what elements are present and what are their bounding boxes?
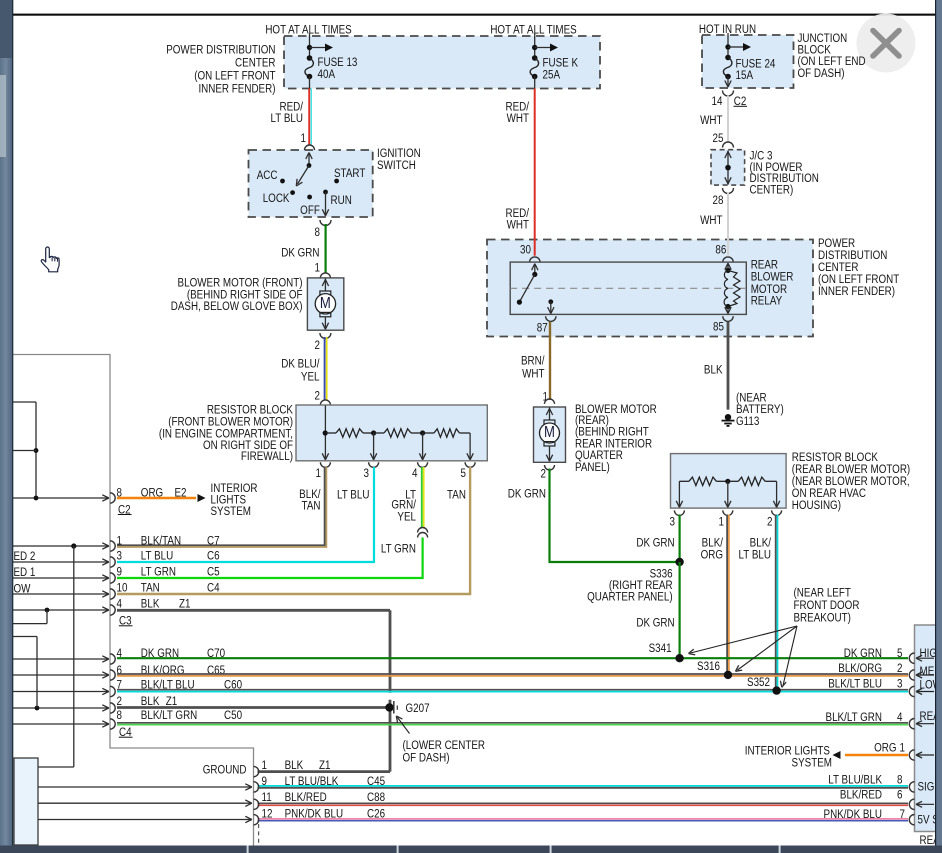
- connector bump GROUND pin 9: [254, 782, 259, 792]
- fuse FK bottom terminal: [532, 74, 538, 80]
- svg-text:SYSTEM: SYSTEM: [792, 756, 832, 769]
- label (NEAR LEFT FRONT DOOR BREAKOUT): [794, 586, 860, 624]
- wire branch upper-left a: [13, 402, 36, 498]
- HVAC control module outline: [13, 355, 254, 846]
- svg-text:3: 3: [670, 516, 675, 529]
- J/C 3 internal junction: [725, 165, 731, 171]
- connector C3 label: [119, 615, 133, 628]
- svg-text:DK GRN: DK GRN: [281, 246, 319, 259]
- label BLK/ TAN: [299, 488, 321, 513]
- pin 14 and connector C2 labels: [712, 95, 747, 108]
- label (NEAR BATTERY) G113: [736, 392, 784, 429]
- svg-text:RELAY: RELAY: [751, 295, 783, 308]
- svg-text:9: 9: [262, 775, 267, 788]
- svg-text:86: 86: [715, 243, 726, 256]
- svg-text:LT BLU: LT BLU: [739, 548, 772, 561]
- pin 87 label: [537, 322, 548, 335]
- svg-text:G207: G207: [406, 702, 430, 715]
- feed arrow right at fuse 13: [310, 44, 334, 52]
- svg-text:8: 8: [117, 709, 122, 722]
- svg-text:2: 2: [897, 662, 902, 675]
- relay switch common stem: [532, 264, 538, 275]
- svg-text:C88: C88: [367, 791, 385, 804]
- wire WHT junction block to J/C 3: [727, 96, 729, 143]
- label DK GRN pin3: [636, 536, 674, 549]
- label DK GRN S336-S341: [636, 616, 674, 629]
- wire LOW into C3 pin 10: [13, 591, 109, 597]
- connector bump J/C 3 pin 25: [723, 142, 734, 148]
- svg-text:C7: C7: [207, 534, 220, 547]
- svg-text:BLK/RED: BLK/RED: [840, 789, 882, 802]
- wire BLK/ORG row C65: [117, 674, 908, 676]
- label LOW: [920, 679, 942, 692]
- connector bump rear resistor pin 2: [772, 510, 782, 515]
- label REAR BLOWER MOTOR RELAY: [751, 258, 794, 307]
- label DK GRN: [281, 246, 319, 259]
- svg-text:85: 85: [713, 321, 724, 334]
- svg-text:8: 8: [117, 486, 122, 499]
- svg-text:6: 6: [897, 789, 902, 802]
- row 9 LT BLU/BLK C45 labels: [262, 775, 386, 788]
- wire fuse K to box edge: [534, 77, 536, 89]
- label BLK/ LT BLU: [739, 536, 772, 561]
- svg-text:YEL: YEL: [301, 370, 320, 383]
- connector bump right box pin 7: [909, 815, 914, 825]
- svg-text:HOUSING): HOUSING): [792, 499, 841, 512]
- relay coil parallel resistor: [728, 270, 740, 306]
- svg-text:G113: G113: [736, 415, 759, 428]
- row 6 BLK/ORG C65 labels: [117, 664, 226, 677]
- svg-text:TAN: TAN: [447, 488, 466, 501]
- label BLOWER MOTOR (REAR)...: [575, 403, 657, 474]
- svg-text:(ON LEFT FRONT: (ON LEFT FRONT: [194, 69, 276, 82]
- svg-text:WHT: WHT: [700, 114, 723, 127]
- svg-text:WHT: WHT: [507, 218, 530, 231]
- label POWER DISTRIBUTION CENTER (ON LEFT FRONT INNER FENDER) right: [818, 237, 900, 298]
- connector bump right box pin 3: [909, 686, 914, 696]
- connector bump resistor pin 1 out: [320, 462, 330, 467]
- svg-text:POWER DISTRIBUTION: POWER DISTRIBUTION: [166, 43, 275, 56]
- row 3 LT BLU C6 labels: [117, 550, 220, 563]
- label MED: [920, 665, 942, 678]
- connector C2 label: [118, 503, 132, 516]
- wire BLK/LT BLU rear resistor pin2 to S352: [776, 515, 778, 691]
- svg-text:BREAKOUT): BREAKOUT): [794, 611, 851, 624]
- svg-text:OFF: OFF: [300, 204, 320, 217]
- label J/C 3 (IN POWER DISTRIBUTION CENTER): [750, 149, 819, 196]
- svg-text:9: 9: [117, 565, 122, 578]
- svg-text:2: 2: [767, 516, 772, 529]
- wire fuse 13 to box edge: [309, 77, 311, 89]
- rear HVAC control box: [915, 625, 942, 832]
- junction on C4 pin2 wire: [35, 706, 40, 711]
- mouse cursor: [41, 247, 59, 272]
- arrow to interior lights system: [198, 494, 206, 502]
- wire LT BLU/BLK row C45: [258, 786, 909, 788]
- right scrollbar: [935, 0, 942, 853]
- front blower motor box: [307, 278, 343, 330]
- pin 2 label resistor: [315, 389, 320, 402]
- wire ground module to GROUND pin 11: [38, 800, 252, 806]
- wire BLK Z1 vertical: [389, 610, 392, 771]
- connector bump ignition pin 1: [305, 145, 315, 150]
- left scrollbar: [0, 0, 13, 853]
- resistor tap drop pin 5: [467, 433, 473, 460]
- svg-text:OF DASH): OF DASH): [798, 67, 845, 80]
- label RESISTOR BLOCK (REAR BLOWER MOTOR)...: [792, 451, 910, 512]
- contact RUN: [323, 190, 352, 207]
- connector bump resistor pin 3 out: [369, 462, 379, 467]
- front motor M symbol: [315, 279, 335, 330]
- label FUSE K 25A: [543, 56, 579, 81]
- svg-text:SWITCH: SWITCH: [377, 159, 416, 172]
- svg-text:DK GRN: DK GRN: [636, 536, 674, 549]
- label S316: [697, 660, 720, 673]
- label WHT (lower): [700, 214, 723, 227]
- svg-text:FIREWALL): FIREWALL): [241, 450, 293, 463]
- connector bump J/C 3 pin 28: [723, 188, 734, 194]
- ground distribution module box: [14, 758, 38, 845]
- connector bump C3 pin 10: [110, 589, 115, 599]
- splice S336: [675, 558, 683, 566]
- wire BLK relay to ground G113: [727, 322, 730, 410]
- label 5V SUPPLY: [918, 814, 942, 827]
- fuse F24 element: [723, 58, 731, 77]
- label JUNCTION BLOCK (ON LEFT END OF DASH): [798, 32, 866, 80]
- label ...OW: [14, 582, 32, 595]
- label BRN/ WHT: [521, 354, 545, 380]
- feed arrow right at fuse 24: [728, 43, 751, 51]
- wire BLK/LT BLU row C60: [117, 690, 908, 692]
- svg-text:ORG: ORG: [874, 742, 896, 755]
- svg-text:S341: S341: [649, 642, 672, 655]
- svg-text:BLK: BLK: [704, 363, 723, 376]
- label FUSE 13 40A: [318, 56, 358, 81]
- connector bump C3 pin 9: [110, 573, 115, 583]
- svg-text:2: 2: [541, 467, 546, 480]
- net label HOT AT ALL TIMES (right): [490, 23, 576, 36]
- svg-text:BLOWER: BLOWER: [751, 271, 794, 284]
- row 1 BLK Z1 labels: [262, 759, 331, 772]
- connector dashed stub below ground connector: [258, 824, 260, 846]
- relay pin 87 stem: [548, 302, 554, 314]
- junction at C2 feed: [34, 496, 39, 501]
- wire into C4 pin 6: [13, 672, 109, 678]
- splice S341: [675, 654, 683, 662]
- fuse F24 bottom terminal: [725, 74, 731, 80]
- svg-text:TAN: TAN: [302, 499, 321, 512]
- connector bump relay pin 85: [723, 316, 733, 321]
- label RED/ WHT (lower): [505, 207, 529, 232]
- svg-text:M: M: [320, 295, 331, 312]
- svg-text:3: 3: [897, 678, 902, 691]
- connector bump C3 pin 4: [110, 605, 115, 615]
- pin 30 label: [520, 243, 531, 256]
- label GROUND: [203, 763, 247, 776]
- connector bump front blower pin 1: [320, 273, 330, 278]
- svg-text:PANEL): PANEL): [575, 461, 610, 474]
- label REAR (below box): [920, 834, 942, 847]
- svg-text:4: 4: [897, 711, 902, 724]
- fuse FK top terminal: [532, 55, 538, 61]
- wire branch upper-left b: [13, 450, 36, 452]
- connector C4 label: [119, 726, 133, 739]
- arrow pin 1 input: [916, 752, 934, 758]
- wire into C4 pin 2: [13, 705, 109, 711]
- wire DK GRN S336 to S341: [678, 562, 680, 658]
- label BLK: [704, 363, 723, 376]
- svg-text:BLK/TAN: BLK/TAN: [141, 534, 181, 547]
- connector bump right box pin 6: [909, 799, 914, 809]
- svg-text:14: 14: [712, 95, 723, 108]
- rear blower motor box: [534, 407, 566, 462]
- pin 2 label front blower: [315, 339, 320, 352]
- pin 1 label rear blower: [543, 390, 548, 403]
- svg-text:REAR: REAR: [751, 258, 778, 271]
- feed arrow right at fuse K: [535, 44, 558, 52]
- svg-text:TAN: TAN: [141, 581, 160, 594]
- arrow pin 6 input: [916, 801, 934, 807]
- pin 1 label at ignition switch: [301, 132, 306, 145]
- wire DK GRN rear motor to S336: [550, 469, 680, 563]
- label RED/ LT BLU: [271, 100, 304, 125]
- svg-text:3: 3: [364, 467, 369, 480]
- connector bump C4 pin 7: [110, 686, 115, 696]
- wire from HOT AT ALL TIMES to fuse 13: [309, 34, 311, 59]
- net label HOT IN RUN: [699, 23, 756, 36]
- relay switch arm: [519, 274, 534, 302]
- svg-text:25A: 25A: [543, 68, 561, 81]
- svg-text:LT BLU/BLK: LT BLU/BLK: [828, 773, 882, 786]
- rear motor M symbol: [540, 408, 560, 462]
- svg-text:WHT: WHT: [507, 112, 530, 125]
- connector bump C3 pin 1: [110, 541, 115, 551]
- svg-text:LT GRN: LT GRN: [381, 542, 416, 555]
- node junction at fuse 24 feed: [725, 44, 730, 49]
- row 9 LT GRN C5 labels: [117, 565, 220, 578]
- connector bump ignition pin 8: [320, 220, 331, 226]
- label S352: [747, 676, 770, 689]
- node junction at fuse K feed: [532, 45, 537, 50]
- connector bump right box pin 4: [909, 719, 914, 729]
- front resistor block box: [296, 405, 487, 461]
- relay coil bottom node: [725, 304, 731, 314]
- wire HIGH SPEED 2 into C3 pin 3: [13, 559, 109, 565]
- resistor bus node 3: [420, 430, 425, 435]
- wire DK GRN rear resistor pin3 to S336: [678, 515, 680, 563]
- svg-text:INNER FENDER): INNER FENDER): [198, 82, 275, 95]
- right wire labels: [824, 647, 897, 821]
- pin 86 label: [715, 243, 726, 256]
- viewer top border line: [13, 14, 942, 16]
- wire BRN/WHT relay to rear blower motor: [549, 322, 551, 400]
- wire into C4 pin 4: [13, 656, 109, 662]
- svg-text:OF DASH): OF DASH): [403, 751, 450, 764]
- label POWER DISTRIBUTION CENTER (ON LEFT FRONT INNER FENDER): [166, 43, 276, 95]
- svg-text:15A: 15A: [736, 69, 754, 82]
- svg-text:C6: C6: [207, 550, 220, 563]
- wire ORG to right box pin 1: [845, 754, 908, 756]
- pin 8 ORG E2 labels: [117, 486, 187, 499]
- svg-text:LT BLU: LT BLU: [271, 112, 304, 125]
- fuse F13 element: [305, 58, 313, 77]
- rear resistor pin labels: [670, 516, 773, 529]
- label G207: [406, 702, 430, 715]
- svg-text:12: 12: [262, 807, 273, 820]
- label INTERIOR LIGHTS SYSTEM (bottom): [745, 744, 832, 769]
- label RESISTOR BLOCK (FRONT BLOWER MOTOR)...: [159, 404, 294, 464]
- relay switch pivot: [532, 272, 537, 277]
- svg-text:7: 7: [900, 808, 905, 821]
- svg-text:PNK/DK BLU: PNK/DK BLU: [285, 807, 344, 820]
- svg-text:C5: C5: [207, 565, 220, 578]
- pointer to S341: [689, 626, 798, 655]
- svg-text:RUN: RUN: [331, 194, 352, 207]
- svg-text:DK BLU/: DK BLU/: [281, 357, 320, 370]
- wire BLK/RED row C88: [258, 803, 909, 805]
- label INTERIOR LIGHTS SYSTEM (top): [211, 482, 258, 518]
- rear resistor right leg: [773, 481, 779, 507]
- resistor input drop: [322, 406, 328, 460]
- connector bump C4 pin 6: [110, 670, 115, 680]
- svg-text:CENTER): CENTER): [750, 183, 794, 196]
- svg-text:BLK: BLK: [285, 759, 304, 772]
- wire ground module to GROUND pin 9: [38, 784, 252, 790]
- wire into C4 pin 8: [13, 721, 109, 727]
- ignition input stem with up arrow: [306, 153, 312, 166]
- resistor R1 element: [325, 429, 373, 437]
- svg-text:1: 1: [301, 132, 306, 145]
- svg-text:OW: OW: [14, 582, 32, 595]
- svg-text:ED 1: ED 1: [14, 566, 36, 579]
- svg-text:ORG: ORG: [141, 486, 163, 499]
- svg-text:YEL: YEL: [397, 510, 416, 523]
- row 4 BLK Z1 labels: [117, 597, 191, 610]
- connector bump right box pin 1: [909, 750, 914, 760]
- svg-text:1: 1: [719, 516, 724, 529]
- J/C 3 internal bus: [725, 151, 731, 185]
- label REAR: [920, 710, 942, 723]
- row 7 BLK/LT BLU C60 labels: [117, 679, 243, 692]
- label HIGH: [920, 647, 942, 660]
- svg-text:(NEAR LEFT: (NEAR LEFT: [794, 586, 852, 599]
- RUN output arrow to pin 8: [322, 192, 328, 216]
- contact OFF: [300, 195, 320, 217]
- wire fuse 24 to junction block pin 14: [725, 77, 731, 88]
- svg-text:CENTER: CENTER: [235, 56, 276, 69]
- svg-text:1: 1: [262, 759, 267, 772]
- wire DK GRN ignition to front blower motor: [325, 224, 327, 273]
- connector bump right box pin 5: [909, 653, 914, 663]
- svg-text:WHT: WHT: [522, 367, 545, 380]
- svg-text:BLK/ORG: BLK/ORG: [838, 662, 882, 675]
- resistor R3 element: [423, 429, 471, 437]
- row 10 TAN C4 labels: [117, 581, 220, 594]
- wire PNK/DK BLU row C26: [258, 819, 909, 821]
- arrow pin 4 input: [916, 721, 934, 727]
- label LT GRN/ YEL: [391, 488, 416, 523]
- rear resistor center leg: [725, 481, 731, 507]
- pin 85 label: [713, 321, 724, 334]
- svg-text:ACC: ACC: [257, 169, 278, 182]
- pointer to G207: [396, 716, 409, 734]
- rear resistor left leg: [676, 481, 682, 507]
- svg-text:11: 11: [262, 791, 272, 804]
- fuse F13 top terminal: [307, 55, 313, 61]
- connector bump rear resistor pin 3: [674, 510, 684, 515]
- net label HOT AT ALL TIMES (left): [265, 23, 351, 36]
- label LT BLU: [337, 488, 370, 501]
- svg-text:2: 2: [315, 389, 320, 402]
- connector bump rear resistor pin 1: [723, 510, 733, 515]
- relay divider dashed: [510, 287, 746, 289]
- svg-text:C50: C50: [224, 709, 242, 722]
- resistor R2 element: [374, 429, 423, 437]
- branch from C4 pin2 wire to left: [13, 637, 37, 709]
- label S341: [649, 642, 672, 655]
- node junction at fuse 13 feed: [307, 45, 312, 50]
- contact LOCK: [263, 190, 295, 205]
- svg-text:5: 5: [461, 467, 466, 480]
- bottom bar: [0, 846, 942, 853]
- ignition switch box: [249, 150, 373, 217]
- relay coil scallops: [724, 270, 728, 306]
- row 1 BLK/TAN C7 labels: [117, 534, 220, 547]
- wire BLK/LT GRN row C50: [117, 723, 908, 725]
- svg-text:DASH, BELOW GLOVE BOX): DASH, BELOW GLOVE BOX): [171, 300, 303, 313]
- svg-text:1: 1: [316, 467, 321, 480]
- relay coil top node: [725, 263, 731, 273]
- connector bump front blower pin 2: [320, 333, 331, 339]
- pin 25 label: [713, 132, 724, 145]
- ignition pivot node: [307, 163, 312, 168]
- svg-text:C4: C4: [207, 581, 220, 594]
- label RED/ WHT (upper): [505, 100, 529, 125]
- svg-text:5: 5: [897, 647, 902, 660]
- svg-text:25: 25: [713, 132, 724, 145]
- wire DK GRN row C70: [117, 657, 908, 659]
- svg-text:4: 4: [117, 597, 122, 610]
- rear resistor R2: [728, 477, 777, 485]
- connector bump GROUND pin 11: [254, 799, 259, 809]
- connector bump right box pin 2: [909, 670, 914, 680]
- connector bump GROUND pin 12: [254, 815, 259, 825]
- label S336 (RIGHT REAR QUARTER PANEL): [587, 567, 673, 604]
- inline connector on pin4 wire: [418, 528, 428, 538]
- label WHT (upper): [700, 114, 723, 127]
- resistor tap drop pin 4: [419, 433, 425, 460]
- branch from C3 pin4 wire to left: [13, 610, 47, 624]
- row 2 BLK Z1 labels: [117, 695, 178, 708]
- ground splice G207: [385, 701, 397, 714]
- relay switch contact: [517, 300, 522, 305]
- connector bump relay pin 30: [530, 257, 540, 262]
- svg-text:BLK/LT GRN: BLK/LT GRN: [141, 709, 198, 722]
- wire HIGH SPEED 1 into C3 pin 9: [13, 575, 109, 581]
- label SIGNAL: [918, 781, 942, 794]
- svg-text:1: 1: [900, 742, 905, 755]
- label IGNITION SWITCH: [377, 147, 421, 172]
- row 12 PNK/DK BLU C26 labels: [262, 807, 386, 820]
- svg-text:START: START: [334, 167, 366, 180]
- arrow to interior lights (bottom): [833, 751, 841, 759]
- pin 2 label rear blower: [541, 467, 546, 480]
- wire ORG to interior lights system: [117, 497, 196, 499]
- pin 8 label: [315, 226, 320, 239]
- label ...ED 1: [14, 566, 36, 579]
- relay pin 87 contact: [548, 299, 553, 304]
- connector bump GROUND pin 1: [254, 766, 259, 776]
